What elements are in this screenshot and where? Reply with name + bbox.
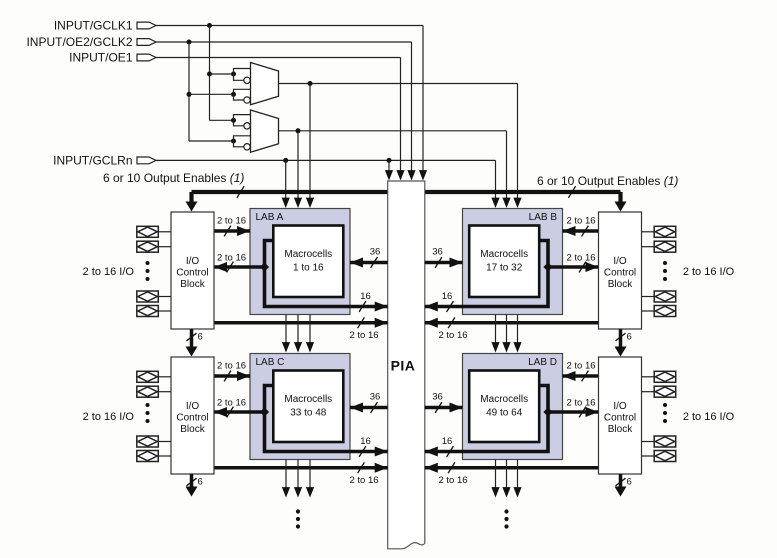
svg-text:6: 6 [198,332,203,343]
I/O pin cell LAB D.4 [654,451,676,462]
arrow U1 output into LAB B [513,198,521,208]
ellipsis dot below LAB C 1 [296,509,300,513]
wire output-enable bus right [425,190,621,194]
wire I/O pin cell LAB D.2 to block [642,391,655,393]
svg-text:6 or 10 Output Enables (1): 6 or 10 Output Enables (1) [537,174,678,188]
pin symbol INPUT/GCLRn [137,157,156,164]
svg-text:17 to 32: 17 to 32 [486,263,523,274]
wire I/O pin cell LAB C.3 to block [158,441,171,443]
svg-text:Macrocells: Macrocells [284,249,332,260]
tick 2 to 16 feedback LAB B [579,262,586,273]
arrow OE1 into PIA [396,170,404,180]
svg-text:INPUT/OE1: INPUT/OE1 [69,51,133,65]
wire PIA 36 bus to LAB C [350,406,388,410]
macrocell block macrocells B [469,226,539,298]
arrow into LAB C at x=310 [306,342,314,352]
tick output-enable bus left [237,186,244,198]
tick 2 to 16 bus LAB A [358,317,365,328]
tick 2 to 16 input LAB D [582,371,589,382]
svg-text:Block: Block [608,279,633,290]
I/O pin cell LAB B.4 [654,306,676,317]
ellipsis dot I/O pins LAB D.2 [663,411,667,415]
wire LAB D macrocell feedback + 16 bus to PIA [425,386,548,452]
svg-text:2 to 16: 2 to 16 [349,475,378,486]
tick output-enable bus right [568,186,575,198]
I/O pin cell LAB D.3 [654,436,676,447]
svg-text:36: 36 [432,392,443,403]
wire GCLK1 to mux U1 feed [210,73,234,75]
wire I/O pin cell LAB C.2 to block [158,391,171,393]
arrow 36 bus into LAB A [350,258,363,268]
svg-text:Control: Control [176,412,208,423]
wire OE2/GCLK2 vertical to PIA [411,42,413,172]
op U2 mux input 1 branch dot [231,118,236,123]
tick 2 to 16 bus LAB D [448,462,455,473]
wire below LAB D at x=495.5 [495,460,497,489]
op U2 mux input 2 inversion bubble [244,144,250,150]
macrocell block macrocells D [469,371,539,443]
wire I/O block LAB B 2 to 16 bus to PIA [425,321,599,325]
I/O control block LAB B [599,212,642,329]
arrow output-enable into I/O block 1 [186,202,198,212]
op U1 mux input 2 inversion bubble [244,97,250,103]
svg-text:2 to 16: 2 to 16 [438,475,467,486]
wire OE1 horizontal [156,57,401,59]
tick 16 bus LAB D [447,446,454,457]
tick 36 bus LAB A [371,257,378,268]
op U1 mux input 2 true wire [234,89,251,94]
tick 2 to 16 input LAB A [224,226,231,237]
svg-text:2 to 16: 2 to 16 [566,361,595,372]
svg-text:1 to 16: 1 to 16 [293,263,324,274]
wire I/O pin cell LAB B.1 to block [642,231,655,233]
arrow 36 bus into LAB D [450,403,463,413]
svg-text:I/O: I/O [613,401,627,412]
svg-text:INPUT/GCLRn: INPUT/GCLRn [53,154,132,168]
svg-text:Block: Block [608,424,633,435]
svg-text:2 to 16 I/O: 2 to 16 I/O [683,411,735,423]
wire GCLK1 vertical to PIA [422,26,424,172]
wire GCLK1 horizontal [156,25,423,27]
arrow 6 bus at x=620.5 [615,487,627,497]
arrow I/O block into LAB D [563,371,576,381]
junction dot GCLRn to LAB A [283,158,288,163]
svg-text:33 to 48: 33 to 48 [290,408,327,419]
svg-text:6: 6 [627,332,632,343]
wire 6 bus at x=620.5 [619,329,623,348]
arrow I/O LAB D 2 to 16 bus into PIA [425,463,438,473]
ellipsis dot I/O pins LAB C.2 [146,411,150,415]
op U2 mux input 2 complement wire [234,141,244,147]
ellipsis dot I/O pins LAB D.3 [663,419,667,423]
wire GCLRn vertical to LAB A [285,160,287,198]
wire GCLRn horizontal [156,159,496,161]
junction dot OE2 to mux U1 [187,92,192,97]
arrow LAB A 16 bus into PIA [375,302,388,312]
op U2 mux input 2 true wire [234,136,251,141]
arrow I/O LAB A 2 to 16 bus into PIA [375,318,388,328]
wire GCLRn vertical to LAB B [495,160,497,198]
arrow below LAB D at x=517.5 [513,487,521,497]
arrow into LAB D at x=495.5 [491,342,499,352]
arrow 6 bus at x=620.5 [615,347,627,357]
arrow LAB C 16 bus into PIA [375,447,388,457]
wire OE2 to mux U2 feed [189,140,234,142]
tick 36 bus LAB D [435,402,442,413]
svg-text:16: 16 [360,436,371,447]
wire 6 bus at x=620.5 [619,474,623,488]
svg-text:2 to 16 I/O: 2 to 16 I/O [683,266,735,278]
wire LAB A macrocell feedback + 16 bus to PIA [265,241,388,307]
I/O pin cell LAB C.3 [137,436,159,447]
wire I/O pin cell LAB D.1 to block [642,376,655,378]
arrow U1 output into LAB A [306,198,314,208]
I/O pin cell LAB D.1 [654,371,676,382]
arrow into LAB D at x=517.5 [513,342,521,352]
ellipsis dot below LAB D 3 [504,524,508,528]
macrocell block macrocells C [273,371,343,443]
svg-text:6 or 10 Output Enables (1): 6 or 10 Output Enables (1) [103,171,244,185]
ellipsis dot I/O pins LAB B.3 [663,277,667,281]
wire I/O pin cell LAB C.4 to block [158,455,171,457]
ellipsis dot I/O pins LAB C.1 [146,403,150,407]
op U1 mux input 1 complement wire [234,74,244,80]
wire OE2 to mux U1 feed [189,93,234,95]
svg-text:2 to 16: 2 to 16 [566,216,595,227]
ellipsis dot below LAB D 2 [504,517,508,521]
wire I/O pin cell LAB A.3 to block [158,296,171,298]
ellipsis dot I/O pins LAB C.3 [146,419,150,423]
wire I/O block to LAB C [214,374,250,378]
op U1 mux input 1 true wire [234,69,251,75]
arrow U2 output into LAB A [294,198,302,208]
tick 6 bus at x=191.5 [187,333,197,341]
arrow LAB A feedback into I/O block [214,262,227,272]
svg-text:2 to 16 I/O: 2 to 16 I/O [83,411,135,423]
svg-text:PIA: PIA [391,358,416,374]
op U2 mux input 1 true wire [234,115,251,121]
svg-text:Macrocells: Macrocells [480,394,528,405]
wire I/O block LAB C 2 to 16 bus to PIA [214,466,388,470]
wire I/O pin cell LAB A.2 to block [158,246,171,248]
wire LAB A to LAB C at x=310 [309,315,311,344]
svg-text:Control: Control [604,267,636,278]
wire OE2/GCLK2 horizontal [156,41,412,43]
op U1 mux input 2 complement wire [234,94,244,100]
LAB block LAB D [463,354,563,460]
tick 16 bus LAB B [447,301,454,312]
wire below LAB C at x=310 [309,460,311,489]
wire LAB A feedback to I/O block [214,265,265,269]
tick 6 bus at x=191.5 [187,478,197,486]
I/O pin cell LAB B.3 [654,291,676,302]
wire U1 output down to LAB A [309,84,311,199]
arrow LAB D feedback into I/O block [586,407,599,417]
svg-text:Block: Block [180,424,205,435]
wire LAB B to LAB D at x=517.5 [517,315,519,344]
wire mux U2 output [279,130,507,132]
svg-text:2 to 16: 2 to 16 [349,330,378,341]
arrow output-enable into I/O block 2 [615,202,627,212]
wire I/O block to LAB B [563,229,599,233]
wire LAB B macrocell feedback + 16 bus to PIA [425,241,548,307]
I/O pin cell LAB A.4 [137,306,159,317]
svg-text:2 to 16: 2 to 16 [217,216,246,227]
I/O pin cell LAB A.1 [137,226,159,237]
op U1 mux input 1 inversion bubble [244,77,250,83]
LAB block LAB B [463,209,563,315]
wire I/O pin cell LAB D.4 to block [642,455,655,457]
ellipsis dot I/O pins LAB B.1 [663,261,667,265]
arrow I/O block into LAB B [563,226,576,236]
I/O pin cell LAB C.1 [137,371,159,382]
I/O control block LAB C [171,357,214,474]
svg-text:2 to 16: 2 to 16 [566,253,595,264]
ellipsis dot below LAB C 3 [296,524,300,528]
svg-text:16: 16 [442,436,453,447]
svg-text:36: 36 [370,392,381,403]
pin symbol INPUT/OE2/GCLK2 [137,39,156,46]
wire I/O pin cell LAB B.3 to block [642,296,655,298]
wire I/O pin cell LAB D.3 to block [642,441,655,443]
arrow OE2/GCLK2 into PIA [407,170,415,180]
wire PIA 36 bus to LAB A [350,261,388,265]
svg-text:16: 16 [442,291,453,302]
wire U2 output down to LAB B [506,131,508,199]
arrow LAB B feedback into I/O block [586,262,599,272]
svg-text:Macrocells: Macrocells [284,394,332,405]
wire U1 output down to LAB B [517,84,519,199]
wire GCLK1 to mux U2 feed [210,119,234,121]
arrow GCLK1 into PIA [419,170,427,180]
ellipsis dot I/O pins LAB D.1 [663,403,667,407]
I/O pin cell LAB C.4 [137,451,159,462]
macrocell block macrocells A [273,226,343,298]
arrow GCLRn into PIA [385,170,393,180]
svg-text:LAB A: LAB A [256,212,284,223]
op U1 mux trapezoid body [251,63,279,105]
svg-text:I/O: I/O [186,256,200,267]
tick 2 to 16 input LAB C [224,371,231,382]
ellipsis dot I/O pins LAB B.2 [663,269,667,273]
LAB block LAB A [250,209,350,315]
arrow LAB B 16 bus into PIA [425,302,438,312]
ellipsis dot below LAB C 2 [296,517,300,521]
tick 36 bus LAB B [435,257,442,268]
junction dot GCLK1 to mux U1 [207,72,212,77]
arrow into LAB C at x=298 [294,342,302,352]
wire LAB A to LAB C at x=298 [297,315,299,344]
tick 2 to 16 bus LAB B [448,317,455,328]
wire LAB C macrocell feedback + 16 bus to PIA [265,386,388,452]
wire I/O pin cell LAB A.4 to block [158,310,171,312]
svg-text:Macrocells: Macrocells [480,249,528,260]
arrow below LAB D at x=495.5 [491,487,499,497]
wire OE1 vertical to PIA [400,58,402,172]
op U2 mux input 2 branch dot [231,139,236,144]
I/O pin cell LAB B.1 [654,226,676,237]
junction LAB A feedback node [260,262,269,271]
wire I/O block LAB D 2 to 16 bus to PIA [425,466,599,470]
tick 2 to 16 input LAB B [582,226,589,237]
arrow GCLRn into LAB A [282,198,290,208]
LAB block LAB C [250,354,350,460]
op U2 mux input 1 complement wire [234,120,244,126]
wire LAB C feedback to I/O block [214,410,265,414]
junction LAB B feedback node [543,262,552,271]
svg-text:Block: Block [180,279,205,290]
I/O control block LAB A [171,212,214,329]
tick 16 bus LAB C [359,446,366,457]
wire LAB A to LAB C at x=286 [285,315,287,344]
wire below LAB D at x=517.5 [517,460,519,489]
tick 2 to 16 feedback LAB C [227,407,234,418]
wire GCLK1 mux-feed vertical [209,26,211,121]
arrow LAB C feedback into I/O block [214,407,227,417]
arrow I/O LAB B 2 to 16 bus into PIA [425,318,438,328]
svg-text:LAB D: LAB D [528,357,557,368]
arrow I/O block into LAB A [237,226,250,236]
arrow I/O block into LAB C [237,371,250,381]
arrow below LAB C at x=286 [282,487,290,497]
I/O pin cell LAB A.2 [137,241,159,252]
ellipsis dot below LAB D 1 [504,509,508,513]
svg-text:Control: Control [176,267,208,278]
tick 6 bus at x=620.5 [616,333,626,341]
svg-text:2 to 16: 2 to 16 [566,398,595,409]
arrow 6 bus at x=191.5 [186,487,198,497]
arrow 36 bus into LAB B [450,258,463,268]
svg-text:49 to 64: 49 to 64 [486,408,523,419]
op U2 mux trapezoid body [251,110,279,152]
svg-text:INPUT/OE2/GCLK2: INPUT/OE2/GCLK2 [26,35,132,49]
wire LAB B to LAB D at x=495.5 [495,315,497,344]
svg-text:16: 16 [360,291,371,302]
pin symbol INPUT/GCLK1 [137,22,156,29]
ellipsis dot I/O pins LAB A.1 [146,261,150,265]
svg-text:LAB C: LAB C [256,357,285,368]
tick 6 bus at x=620.5 [616,478,626,486]
wire OE2 mux-feed vertical [188,42,190,141]
tick 16 bus LAB A [359,301,366,312]
ellipsis dot I/O pins LAB A.3 [146,277,150,281]
arrow I/O LAB C 2 to 16 bus into PIA [375,463,388,473]
ellipsis dot I/O pins LAB A.2 [146,269,150,273]
op U1 mux input 2 branch dot [231,92,236,97]
svg-text:2 to 16: 2 to 16 [438,330,467,341]
tick 2 to 16 feedback LAB A [227,262,234,273]
wire below LAB D at x=506.5 [506,460,508,489]
svg-text:I/O: I/O [613,256,627,267]
svg-text:36: 36 [432,247,443,258]
wire I/O block to LAB D [563,374,599,378]
svg-text:6: 6 [627,477,632,488]
wire I/O pin cell LAB A.1 to block [158,231,171,233]
I/O pin cell LAB B.2 [654,241,676,252]
tick 2 to 16 feedback LAB D [579,407,586,418]
wire output-enable bus left drop [189,192,193,202]
wire GCLRn vertical to PIA [388,160,390,171]
arrow below LAB C at x=310 [306,487,314,497]
wire 6 bus at x=191.5 [190,329,194,348]
wire PIA 36 bus to LAB D [425,406,463,410]
tick 36 bus LAB C [371,402,378,413]
arrow 36 bus into LAB C [350,403,363,413]
wire I/O pin cell LAB C.1 to block [158,376,171,378]
wire below LAB C at x=286 [285,460,287,489]
wire I/O pin cell LAB B.4 to block [642,310,655,312]
tick 2 to 16 bus LAB C [358,462,365,473]
svg-text:2 to 16: 2 to 16 [217,253,246,264]
wire mux U1 output [279,83,518,85]
svg-text:2 to 16 I/O: 2 to 16 I/O [83,266,135,278]
wire U2 output down to LAB A [297,131,299,199]
arrow below LAB D at x=506.5 [502,487,510,497]
I/O pin cell LAB A.3 [137,291,159,302]
op U1 mux input 1 branch dot [231,72,236,77]
op U2 mux input 1 inversion bubble [244,123,250,129]
wire output-enable bus right drop [618,192,622,202]
wire LAB D feedback to I/O block [548,410,599,414]
junction LAB D feedback node [543,407,552,416]
I/O control block LAB D [599,357,642,474]
wire below LAB C at x=298 [297,460,299,489]
arrow 6 bus at x=191.5 [186,347,198,357]
svg-text:LAB B: LAB B [529,212,558,223]
I/O pin cell LAB C.2 [137,386,159,397]
svg-text:Control: Control [604,412,636,423]
wire I/O block LAB A 2 to 16 bus to PIA [214,321,388,325]
I/O pin cell LAB D.2 [654,386,676,397]
wire output-enable bus left [192,190,388,194]
PIA block [388,181,425,549]
arrow below LAB C at x=298 [294,487,302,497]
svg-text:6: 6 [198,477,203,488]
arrow GCLRn into LAB B [491,198,499,208]
arrow LAB D 16 bus into PIA [425,447,438,457]
pin symbol INPUT/OE1 [137,54,156,61]
wire 6 bus at x=191.5 [190,474,194,488]
junction dot GCLK1/mux feed [207,23,212,28]
junction dot U2 output to LAB A [296,128,301,133]
wire I/O block to LAB A [214,229,250,233]
junction dot U1 output to LAB A [308,81,313,86]
junction dot OE2/mux feed [187,40,192,45]
svg-text:2 to 16: 2 to 16 [217,361,246,372]
arrow into LAB C at x=286 [282,342,290,352]
junction dot GCLRn to PIA [387,158,392,163]
svg-text:I/O: I/O [186,401,200,412]
wire LAB B to LAB D at x=506.5 [506,315,508,344]
svg-text:2 to 16: 2 to 16 [217,398,246,409]
wire LAB B feedback to I/O block [548,265,599,269]
wire PIA 36 bus to LAB B [425,261,463,265]
wire I/O pin cell LAB B.2 to block [642,246,655,248]
junction LAB C feedback node [260,407,269,416]
svg-text:36: 36 [370,247,381,258]
svg-text:INPUT/GCLK1: INPUT/GCLK1 [54,19,133,33]
arrow into LAB D at x=506.5 [502,342,510,352]
arrow U2 output into LAB B [502,198,510,208]
